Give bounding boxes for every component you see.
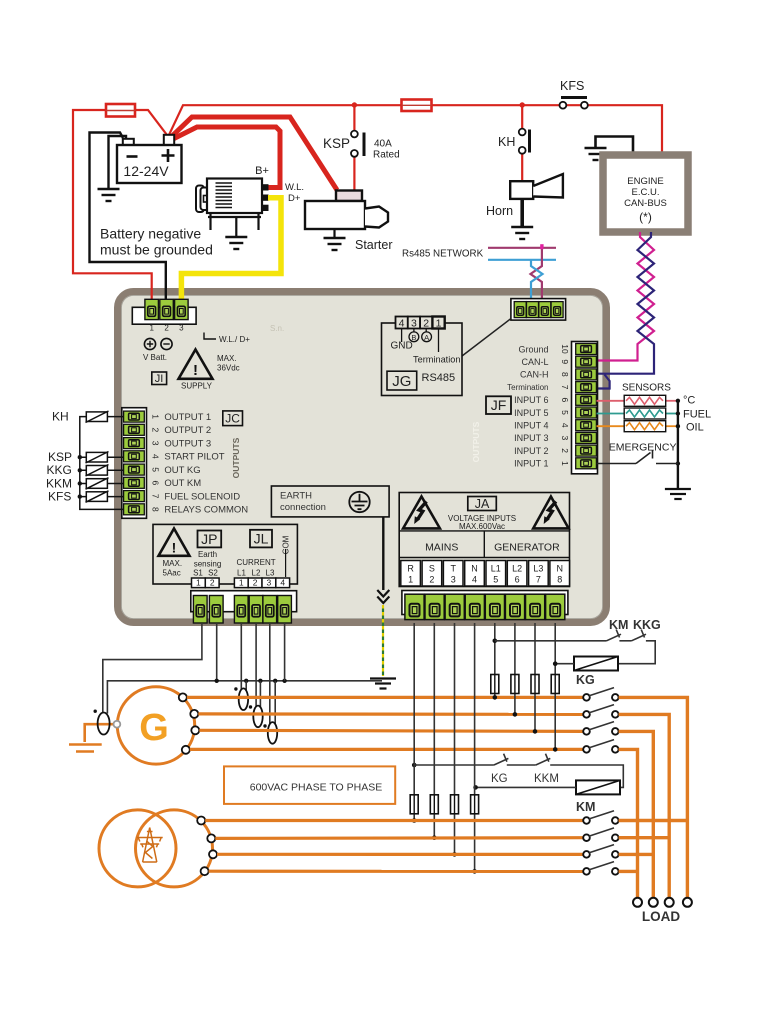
CT1 (239, 688, 248, 710)
wire KG pole 1 to load column 1 (619, 697, 688, 897)
wire mains phase R (205, 819, 582, 822)
svg-text:Termination: Termination (507, 383, 548, 392)
svg-text:INPUT 6: INPUT 6 (514, 395, 548, 405)
bottom-right connector strip (402, 591, 568, 615)
CT0 earth current transformer (98, 713, 110, 735)
wire red to KSP switch (353, 105, 355, 131)
svg-text:8: 8 (557, 575, 562, 585)
svg-text:OUTPUTS: OUTPUTS (231, 437, 241, 478)
earth symbol in circle (349, 492, 369, 512)
wire mains phase T (217, 853, 583, 856)
junction mains R (412, 818, 417, 823)
svg-text:N: N (556, 564, 563, 574)
generator earth wire (85, 724, 114, 742)
svg-text:GENERATOR: GENERATOR (494, 542, 560, 554)
svg-text:Termination: Termination (413, 355, 461, 365)
junction gen L1 (493, 695, 498, 700)
CAN twisted pair (magenta) ECU to CAN-L (597, 232, 655, 361)
wire KG pole 3 to load column 3 (619, 731, 654, 897)
wire red to KH switch (521, 105, 523, 129)
pin number cells (192, 578, 290, 588)
junction mains N (472, 869, 477, 874)
W.L./D+ mark (204, 333, 216, 340)
wire mains phase S (215, 836, 582, 840)
svg-text:5: 5 (493, 575, 498, 585)
wire KM pole 1 to load column 1 (619, 819, 688, 822)
svg-text:INPUT 4: INPUT 4 (514, 421, 548, 431)
svg-text:S: S (429, 564, 435, 574)
svg-text:CAN-L: CAN-L (521, 357, 548, 367)
fuse gen N (551, 675, 559, 694)
svg-text:KFS: KFS (560, 79, 584, 93)
svg-text:CURRENT: CURRENT (237, 558, 276, 567)
rotated pin numbers 10..1 (560, 344, 570, 466)
svg-text:5: 5 (560, 410, 570, 415)
svg-text:E.C.U.: E.C.U. (632, 187, 660, 198)
svg-text:T: T (450, 564, 456, 574)
svg-text:KKG: KKG (47, 463, 72, 477)
output labels (164, 412, 248, 516)
generator terminal L3 (191, 726, 199, 734)
phase cells (401, 561, 570, 587)
svg-text:5: 5 (151, 467, 161, 472)
transformer terminal S (207, 834, 215, 842)
svg-text:Earth: Earth (198, 550, 217, 559)
wire KM pole 2 to load column 2 (619, 836, 670, 839)
svg-text:OIL: OIL (686, 422, 704, 434)
svg-text:RS485: RS485 (422, 372, 456, 384)
wire input6 to temp sensor (597, 400, 625, 402)
battery 12-24V (123, 139, 134, 146)
green/yellow dashed earth lead (382, 605, 384, 676)
earth down wire with arrows (382, 517, 384, 590)
svg-text:2: 2 (560, 448, 570, 453)
svg-text:INPUT 5: INPUT 5 (514, 408, 548, 418)
resistor temp (624, 395, 666, 406)
svg-text:START PILOT: START PILOT (164, 452, 224, 463)
KM KKG interlock to KG coil (493, 639, 498, 644)
svg-text:LOAD: LOAD (642, 909, 680, 924)
fuse F2 on distribution line (402, 100, 432, 112)
svg-text:Horn: Horn (486, 204, 513, 218)
svg-text:36Vdc: 36Vdc (217, 364, 240, 373)
svg-text:KSP: KSP (48, 450, 72, 464)
svg-text:OUTPUTS: OUTPUTS (471, 421, 481, 462)
contactor KG pole 3 (583, 722, 618, 735)
svg-text:JL: JL (254, 531, 269, 547)
sensors common bus (677, 401, 679, 488)
svg-text:KKM: KKM (534, 773, 559, 785)
svg-text:JP: JP (201, 531, 217, 547)
wire S2 terminal to common bus (216, 623, 218, 681)
generator G (117, 687, 194, 764)
wire terminal L1 to CT1 (240, 623, 242, 690)
svg-text:(*): (*) (639, 210, 652, 224)
svg-text:1: 1 (149, 324, 154, 333)
svg-text:2: 2 (210, 578, 215, 588)
horn (486, 174, 563, 239)
600VAC box (224, 766, 395, 804)
V Batt symbols (144, 338, 155, 349)
alternator (196, 165, 304, 249)
svg-text:FUEL SOLENOID: FUEL SOLENOID (164, 492, 240, 503)
svg-text:1: 1 (408, 575, 413, 585)
svg-text:KSP: KSP (323, 136, 350, 151)
termination jumper navy (597, 375, 610, 389)
svg-text:W.L.: W.L. (285, 182, 304, 193)
svg-text:7: 7 (151, 494, 161, 499)
chassis ground (370, 679, 396, 689)
supply warning triangle (179, 350, 213, 379)
svg-text:OUTPUT 2: OUTPUT 2 (164, 425, 211, 436)
pylon icon (137, 828, 163, 863)
top-left 3-pole connector block (132, 307, 196, 324)
svg-text:W.L./ D+: W.L./ D+ (219, 335, 250, 344)
junction COM on bus (282, 679, 286, 683)
bottom-left connector terminals (191, 591, 297, 612)
JF box (486, 396, 511, 414)
svg-text:MAX.: MAX. (163, 559, 183, 568)
svg-text:7: 7 (560, 385, 570, 390)
load terminal 3 (665, 898, 674, 907)
svg-text:600VAC PHASE TO PHASE: 600VAC PHASE TO PHASE (250, 782, 382, 794)
wire terminal 3 to mains T (454, 623, 456, 854)
transformer terminal N (201, 867, 209, 875)
hazard triangle left (403, 497, 440, 529)
wire generator phase L3 (199, 730, 582, 731)
svg-text:3: 3 (411, 318, 417, 330)
svg-text:OUT KM: OUT KM (164, 478, 201, 489)
svg-text:CAN-BUS: CAN-BUS (624, 198, 667, 209)
svg-text:OUT KG: OUT KG (164, 465, 200, 476)
fuse gen L3 (531, 675, 539, 694)
CT3 (268, 722, 277, 744)
fuse gen L2 (511, 675, 519, 694)
svg-text:B+: B+ (255, 165, 269, 177)
wire terminal 8 to gen N (554, 623, 556, 749)
svg-text:9: 9 (560, 359, 570, 364)
svg-text:L1: L1 (491, 564, 501, 574)
svg-text:4: 4 (280, 578, 285, 588)
svg-text:connection: connection (280, 502, 326, 513)
leader line to JG (462, 319, 511, 357)
wire input4 to oil sensor (597, 425, 625, 427)
CAN twisted pair (navy) ECU to CAN-H (597, 232, 655, 374)
wire generator neutral (190, 748, 583, 751)
svg-text:A: A (424, 333, 429, 342)
wire generator phase L1 (187, 696, 583, 699)
outputs connector strip (122, 408, 147, 519)
svg-text:KM: KM (609, 618, 628, 632)
wire mains neutral (209, 870, 583, 873)
transformer terminal R (197, 817, 205, 825)
wire terminal 1 to mains R (413, 623, 415, 821)
contactor KM pole 2 (583, 828, 618, 841)
svg-text:3: 3 (267, 578, 272, 588)
svg-text:5Aac: 5Aac (163, 569, 181, 578)
svg-text:ENGINE: ENGINE (627, 176, 663, 187)
svg-text:JA: JA (475, 497, 490, 511)
wire KM pole 4 to load column 4 (619, 870, 638, 873)
inputs connector strip (572, 342, 598, 474)
svg-text:KH: KH (498, 135, 515, 149)
svg-text:D+: D+ (288, 193, 301, 204)
ground (sensors) (665, 489, 691, 499)
svg-text:12-24V: 12-24V (123, 163, 169, 179)
svg-text:S2: S2 (208, 569, 218, 578)
generator terminal L2 (190, 710, 198, 718)
generator ground (orange) (69, 745, 102, 752)
input labels (507, 344, 548, 468)
wire terminal 7 to gen L3 (534, 623, 536, 731)
generator terminal L1 (179, 693, 187, 701)
wire: battery negative to controller terminal 2 (90, 133, 166, 300)
hazard triangle right (533, 497, 568, 529)
svg-text:!: ! (193, 362, 198, 379)
switch KH contacts (519, 129, 526, 136)
wire terminal 5 to gen L1 (494, 623, 496, 697)
wire: thick red battery + to alternator B+ (169, 127, 280, 188)
svg-text:V Batt.: V Batt. (143, 353, 167, 362)
wire: red loop fuse to terminal 1 (73, 110, 152, 299)
svg-text:L1: L1 (237, 569, 246, 578)
fuse F (battery supply fuse) (106, 104, 135, 117)
svg-text:10: 10 (560, 344, 570, 354)
svg-text:OUTPUT 3: OUTPUT 3 (164, 439, 211, 450)
contactor KG pole 4 (583, 740, 618, 753)
svg-text:1: 1 (196, 578, 201, 588)
wire terminal 2 to mains S (433, 623, 435, 838)
svg-text:EMERGENCY: EMERGENCY (609, 442, 677, 454)
svg-text:RELAYS COMMON: RELAYS COMMON (164, 505, 248, 516)
wire terminal 6 to gen L2 (514, 623, 516, 714)
wire KG pole 2 to load column 2 (619, 714, 670, 897)
svg-text:2: 2 (253, 578, 258, 588)
svg-text:3: 3 (179, 324, 184, 333)
svg-text:N: N (471, 564, 478, 574)
svg-text:Battery negative: Battery negative (100, 226, 201, 242)
svg-text:Rated: Rated (373, 150, 400, 161)
KM coil (576, 780, 620, 794)
svg-text:Rs485 NETWORK: Rs485 NETWORK (402, 249, 484, 260)
resistor oil (624, 421, 666, 432)
svg-text:L2: L2 (252, 569, 261, 578)
svg-text:3: 3 (451, 575, 456, 585)
top-center 4-pole connector (RS485) (511, 299, 566, 321)
JC box (223, 411, 243, 426)
wire KM pole 3 to load column 3 (619, 853, 654, 856)
svg-text:4: 4 (472, 575, 477, 585)
wire input5 to fuel sensor (597, 413, 625, 415)
wire: yellow W.L. to terminal 3 (181, 198, 281, 299)
KG coil (574, 657, 618, 671)
JG RS485 section (382, 317, 463, 396)
svg-text:KM: KM (576, 800, 595, 814)
engine ECU (585, 137, 689, 233)
svg-text:JF: JF (491, 397, 507, 413)
mains transformer (99, 810, 176, 887)
svg-text:JI: JI (155, 373, 164, 385)
svg-text:KH: KH (52, 410, 69, 424)
svg-text:Ground: Ground (518, 344, 548, 354)
svg-text:4: 4 (399, 318, 405, 330)
resistor fuel (624, 408, 666, 419)
wire terminal 4 to mains N (474, 623, 476, 871)
svg-text:1: 1 (436, 318, 442, 330)
transformer terminal T (209, 850, 217, 858)
wire: thick red battery + to starter solenoid (169, 117, 337, 190)
junction S2 on bus (215, 679, 219, 683)
contactor KM pole 4 (583, 862, 618, 875)
svg-text:sensing: sensing (194, 560, 222, 569)
wire: battery negative to ground (109, 136, 127, 188)
wire generator phase L2 (198, 712, 582, 716)
load terminal 4 (683, 898, 692, 907)
junction gen N (553, 747, 558, 752)
svg-text:7: 7 (536, 575, 541, 585)
fuse mains S (430, 795, 438, 814)
svg-text:S.n.: S.n. (270, 324, 284, 333)
earth sensing warning triangle (159, 529, 190, 556)
wire S1 terminal to CT0 (103, 623, 202, 712)
fuse mains N (471, 795, 479, 814)
svg-text:MAX.600Vac: MAX.600Vac (459, 522, 505, 531)
svg-text:!: ! (172, 540, 177, 556)
svg-text:must be grounded: must be grounded (100, 242, 213, 258)
svg-text:JC: JC (225, 412, 240, 426)
svg-text:Starter: Starter (355, 238, 393, 252)
svg-text:CAN-H: CAN-H (520, 370, 549, 380)
contactor KG pole 1 (583, 688, 618, 701)
svg-text:1: 1 (560, 461, 570, 466)
wire terminal L3 to CT3 (269, 623, 271, 724)
svg-text:KG: KG (491, 773, 508, 785)
CT2 (253, 706, 262, 728)
svg-text:1: 1 (239, 578, 244, 588)
JP box (198, 531, 222, 548)
svg-text:G: G (139, 707, 169, 749)
rotated pin numbers (151, 414, 161, 512)
svg-text:KKM: KKM (46, 476, 72, 490)
svg-text:SENSORS: SENSORS (622, 383, 671, 394)
svg-text:6: 6 (515, 575, 520, 585)
wire terminal COM to bus (284, 623, 286, 681)
junction gen L2 (513, 712, 518, 717)
svg-text:JG: JG (392, 373, 411, 390)
svg-text:INPUT 3: INPUT 3 (514, 433, 548, 443)
svg-text:L3: L3 (266, 569, 275, 578)
svg-text:8: 8 (560, 372, 570, 377)
svg-text:3: 3 (560, 436, 570, 441)
JA box (468, 497, 497, 511)
node KSP branch (352, 102, 357, 107)
svg-text:KFS: KFS (48, 490, 71, 504)
svg-text:MAX.: MAX. (217, 354, 237, 363)
KG KKM interlock to KM coil (412, 763, 417, 768)
common sensing bus to chassis ground (107, 681, 382, 714)
svg-text:INPUT 2: INPUT 2 (514, 446, 548, 456)
wire red KSP to starter solenoid (353, 157, 355, 191)
fuse gen L1 (491, 675, 499, 694)
svg-text:4: 4 (560, 423, 570, 428)
wire: fuse right to battery + post (135, 110, 167, 135)
svg-text:3: 3 (151, 441, 161, 446)
contactor KM pole 3 (583, 845, 618, 858)
wire CT1 return to bus (245, 681, 247, 691)
svg-text:8: 8 (151, 507, 161, 512)
starter motor (305, 191, 393, 253)
svg-text:MAINS: MAINS (425, 542, 458, 554)
JI box (152, 372, 167, 385)
generator terminal N (182, 746, 190, 754)
svg-text:2: 2 (164, 324, 169, 333)
svg-text:GND: GND (391, 341, 413, 352)
wire KG pole 4 to load column 4 (619, 749, 638, 897)
svg-text:R: R (407, 564, 414, 574)
switch KSP contacts (351, 131, 358, 138)
svg-text:6: 6 (560, 397, 570, 402)
wire CT2 return to bus (259, 681, 261, 708)
ground (battery) (98, 189, 120, 201)
wire CT3 return to bus (274, 681, 276, 725)
JL box (250, 530, 272, 548)
junction mains S (432, 835, 437, 840)
svg-text:L2: L2 (512, 564, 522, 574)
contactor KM pole 1 (583, 811, 618, 824)
switch KFS contacts (561, 96, 587, 99)
svg-text:2: 2 (423, 318, 429, 330)
svg-text:40A: 40A (374, 139, 392, 150)
fuse mains R (410, 795, 418, 814)
svg-text:SUPPLY: SUPPLY (181, 382, 213, 391)
svg-text:1: 1 (151, 414, 161, 419)
svg-text:2: 2 (151, 428, 161, 433)
svg-text:S1: S1 (193, 569, 203, 578)
node KH branch (520, 102, 525, 107)
fuse mains T (451, 795, 459, 814)
junction gen L3 (533, 729, 538, 734)
wire: battery + to top distribution line (thin red) (168, 105, 662, 155)
svg-text:L3: L3 (533, 564, 543, 574)
svg-text:2: 2 (429, 575, 434, 585)
svg-text:KG: KG (576, 673, 595, 687)
junction CT3 return on bus (273, 679, 277, 683)
junction CT1 return on bus (244, 679, 248, 683)
contactor KG pole 2 (583, 705, 618, 718)
svg-text:6: 6 (151, 481, 161, 486)
svg-text:EARTH: EARTH (280, 491, 312, 502)
wire red KH to horn (521, 154, 523, 181)
load terminal 1 (633, 898, 642, 907)
svg-text:°C: °C (683, 395, 695, 407)
svg-text:FUEL: FUEL (683, 409, 711, 421)
controller unit body (118, 292, 607, 623)
svg-text:OUTPUT 1: OUTPUT 1 (164, 412, 211, 423)
junction CT2 return on bus (258, 679, 262, 683)
svg-text:4: 4 (151, 454, 161, 459)
wire terminal L2 to CT2 (255, 623, 257, 707)
svg-text:INPUT 1: INPUT 1 (514, 459, 548, 469)
load terminal 2 (649, 898, 658, 907)
svg-text:KKG: KKG (633, 618, 661, 632)
junction mains T (452, 852, 457, 857)
